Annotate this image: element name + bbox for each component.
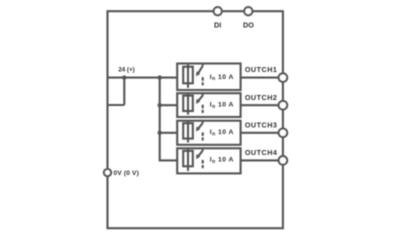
svg-text:DI: DI [214, 21, 221, 30]
wire 24(+) input [108, 77, 178, 79]
terminal OUTCH4 [279, 156, 288, 165]
wire output ch2 [241, 104, 279, 106]
wire output ch1 [241, 77, 279, 79]
svg-text:DO: DO [243, 21, 254, 30]
svg-text:OUTCH4: OUTCH4 [245, 148, 278, 157]
wire stub ch3 [160, 132, 178, 134]
breaker module CH2 [177, 92, 240, 117]
terminal DO [244, 7, 252, 15]
fuse F3 line [187, 122, 189, 143]
box CH3 [177, 121, 240, 145]
box CH2 [177, 93, 240, 117]
breaker switch S2 arrowhead [196, 99, 200, 104]
wire output ch3 [241, 132, 279, 134]
terminal OUTCH1 [279, 73, 288, 82]
breaker switch S3 [202, 120, 204, 123]
svg-text:In 10 A: In 10 A [210, 157, 234, 165]
box CH1 [177, 64, 240, 91]
fuse F1 body [183, 67, 193, 84]
node junction dot B [158, 75, 162, 79]
fuse F2 line [187, 94, 189, 115]
breaker switch S2 [202, 92, 204, 95]
wire jumper loop horizontal [108, 104, 125, 106]
node junction dot A [122, 75, 126, 79]
wire distribution rail [160, 78, 178, 161]
svg-text:0V (0 V): 0V (0 V) [114, 170, 139, 177]
wire stub ch2 [160, 104, 178, 106]
node junction dot D [158, 131, 162, 135]
terminal DI [214, 7, 222, 15]
svg-text:24 (+): 24 (+) [118, 67, 134, 74]
fuse F4 body [183, 151, 193, 166]
box CH4 [177, 148, 240, 173]
terminal OUTCH3 [279, 129, 288, 138]
svg-text:In 10 A: In 10 A [210, 74, 234, 82]
terminal OUTCH2 [279, 101, 288, 110]
breaker switch S4 arrowhead [196, 154, 200, 159]
breaker module CH1 [177, 63, 240, 90]
breaker module CH3 [177, 120, 240, 145]
outer enclosure frame [108, 11, 283, 228]
svg-text:OUTCH2: OUTCH2 [245, 93, 278, 102]
breaker module CH4 [177, 148, 240, 174]
wire jumper loop vertical [123, 78, 125, 105]
svg-text:OUTCH3: OUTCH3 [245, 120, 278, 129]
fuse F3 body [183, 123, 193, 138]
node junction dot C [158, 103, 162, 107]
breaker switch S4 [202, 148, 204, 151]
breaker switch S3 arrowhead [196, 126, 200, 131]
svg-text:In 10 A: In 10 A [210, 129, 234, 137]
breaker switch S1 arrowhead [196, 71, 200, 76]
wire output ch4 [241, 159, 279, 161]
fuse F1 line [187, 64, 189, 88]
terminal 0V [104, 169, 111, 176]
svg-text:OUTCH1: OUTCH1 [245, 65, 278, 74]
fuse F4 line [187, 149, 189, 171]
fuse F2 body [183, 96, 193, 111]
breaker switch S1 [202, 63, 204, 66]
svg-text:In 10 A: In 10 A [210, 102, 234, 110]
